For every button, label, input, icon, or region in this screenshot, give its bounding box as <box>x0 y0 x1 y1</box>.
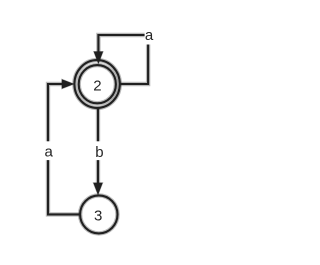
wire edge a from state 3 left side up to state 2 <box>48 84 80 214</box>
wire edge b from state 2 down to state 3 <box>97 107 99 183</box>
state 3 circle <box>80 195 117 233</box>
label background for left edge a <box>43 141 54 160</box>
svg-text:a: a <box>45 143 54 160</box>
soft underlay copies of all strokes <box>48 35 148 233</box>
state 2 inner circle <box>79 65 116 103</box>
state 2 outer circle (accepting state) <box>74 60 119 108</box>
label background for self-loop a <box>145 26 155 44</box>
label background for edge b <box>93 141 105 160</box>
arrowhead into left of state 2 <box>62 80 73 88</box>
svg-text:b: b <box>95 144 103 161</box>
arrowhead into top of state 2 <box>94 52 102 63</box>
svg-text:a: a <box>145 27 154 44</box>
arrowhead into top of state 3 <box>94 183 102 193</box>
wire self-loop edge of state 2 (right, up, into top) <box>98 35 148 84</box>
svg-text:2: 2 <box>93 78 101 95</box>
svg-text:3: 3 <box>94 207 102 224</box>
